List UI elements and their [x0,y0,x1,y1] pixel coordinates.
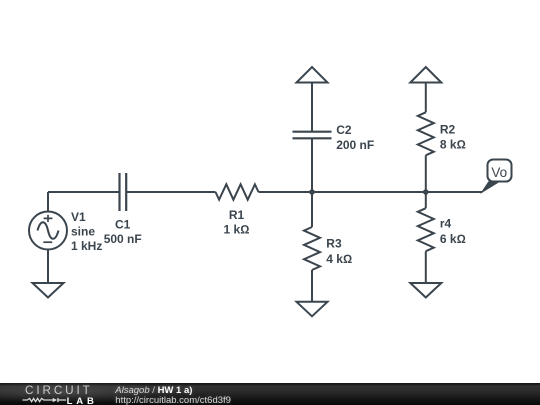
label V1 sine 1 kHz [71,210,102,253]
svg-text:r4: r4 [440,217,452,231]
power rail symbol above R2 [410,67,441,83]
label R3 4 kOhm [326,237,352,266]
ground under V1 [33,283,64,298]
svg-text:6 kΩ: 6 kΩ [440,232,466,246]
attribution text [115,386,231,405]
wire C1 to R1 [126,191,215,193]
resistor r4 [418,208,434,251]
svg-text:R2: R2 [440,122,456,136]
svg-text:4 kΩ: 4 kΩ [326,252,352,266]
ground under r4 [410,283,441,298]
wire node B to Vo flag [426,191,483,193]
svg-text:C1: C1 [115,218,131,232]
svg-text:1 kΩ: 1 kΩ [224,222,250,236]
capacitor C1 [120,173,127,211]
svg-text:R1: R1 [229,208,245,222]
wire C2 bottom lead [311,139,313,193]
node A junction [309,189,315,195]
wire R3 bottom lead [311,270,313,302]
node flag pointer for Vo [480,181,501,194]
svg-text:sine: sine [71,224,95,238]
svg-text:8 kΩ: 8 kΩ [440,138,466,152]
wire node A to node B [312,191,426,193]
CircuitLab logo [25,384,93,397]
node label Vo [488,160,512,182]
node B junction [423,189,429,195]
capacitor C2 [293,132,332,139]
source V1 sine [29,212,67,250]
label r4 6 kOhm [440,217,466,247]
wire V1 bottom lead [47,249,49,283]
svg-text:Vo: Vo [491,165,507,180]
wire r4 bottom lead [425,251,427,283]
svg-text:V1: V1 [71,210,86,224]
svg-text:1 kHz: 1 kHz [71,239,102,253]
resistor R2 [418,112,434,155]
power rail symbol above C2 [297,67,328,83]
wire main horizontal V1 to C1 [48,191,119,193]
resistor R3 [304,227,320,270]
resistor R1 [216,184,259,199]
label R2 8 kOhm [440,122,466,151]
wire R2 bottom lead [425,155,427,192]
footer bar [0,383,540,405]
wire R3 top lead [311,192,313,227]
ground under R3 [297,302,328,317]
label R1 1 kOhm [224,208,250,237]
wire V1 top lead [47,192,49,211]
svg-text:R3: R3 [326,237,342,251]
svg-text:C2: C2 [336,123,352,137]
svg-text:500 nF: 500 nF [104,232,142,246]
svg-text:200 nF: 200 nF [336,138,374,152]
wire R2 top lead [425,83,427,113]
wire r4 top lead [425,192,427,208]
wire C2 top lead [311,83,313,132]
label C1 500 nF [104,218,142,247]
wire R1 to node A [259,191,313,193]
label C2 200 nF [336,123,374,152]
